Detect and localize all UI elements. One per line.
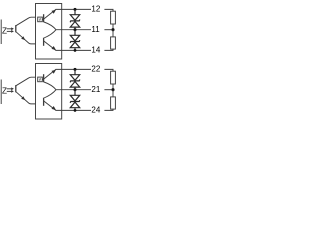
phototransistor Q2 emitter wire with arrow <box>16 92 36 104</box>
node dot R column channel 2 <box>111 88 114 91</box>
LED light arrow 1 channel 2 <box>7 88 12 90</box>
LED light arrow 2 channel 2 <box>7 90 12 92</box>
output element middle arcs to terminal 21 <box>44 82 62 90</box>
node dot R column channel 1 <box>111 28 114 31</box>
output element bar lower channel 1 <box>43 38 45 46</box>
svg-text:Z: Z <box>2 87 7 96</box>
LED light arrow 2 channel 1 <box>7 30 12 32</box>
output element bar upper channel 1 <box>43 14 45 22</box>
suppressor D2 channel 1 (11-14) <box>70 30 80 51</box>
phototransistor Q1 collector wire <box>16 17 36 26</box>
resistor R1 channel 1 <box>111 11 116 24</box>
wire R4 to wire 24 <box>104 109 113 110</box>
input box edge (cropped) channel 1 <box>0 20 2 45</box>
wire 14 channel 1 <box>62 49 91 51</box>
input box edge (cropped) channel 2 <box>0 80 2 105</box>
wire 11 right segment <box>104 29 111 31</box>
phototransistor Q2 collector wire <box>16 77 36 86</box>
node dot TVS middle channel 2 <box>74 88 77 91</box>
wire R3 to node <box>112 84 114 90</box>
driver square mark and link channel 1 <box>39 18 42 20</box>
output element upper diagonal with arrow to terminal 22 <box>44 69 62 79</box>
driver box U1 channel 1 <box>36 4 62 60</box>
svg-text:11: 11 <box>91 25 100 34</box>
wire 22 right segment <box>104 69 113 71</box>
suppressor D3 channel 2 (22-21) <box>70 69 80 89</box>
driver square mark and link channel 2 <box>39 78 42 80</box>
output element middle arcs to terminal 11 <box>44 22 62 30</box>
resistor R3 channel 2 <box>111 71 116 84</box>
wire 21 channel 2 <box>62 89 91 91</box>
node dot TVS bottom channel 1 <box>74 49 77 52</box>
svg-text:12: 12 <box>91 5 100 14</box>
resistor R2 channel 1 <box>111 37 116 49</box>
driver square symbol channel 2 <box>38 77 43 82</box>
node dot TVS top channel 1 <box>74 8 77 11</box>
svg-text:14: 14 <box>91 46 100 55</box>
wire 22 channel 2 <box>62 68 91 70</box>
node dot TVS top channel 2 <box>74 68 77 71</box>
suppressor D1 channel 1 (12-11) <box>70 9 80 29</box>
output element lower diagonal with arrow to terminal 14 <box>44 41 62 50</box>
wire 21 right segment <box>104 89 111 91</box>
phototransistor Q2 base bar <box>15 85 17 92</box>
wire node to R4 <box>112 90 114 97</box>
svg-text:21: 21 <box>91 85 100 94</box>
wire 24 channel 2 <box>62 109 91 111</box>
output element bar upper channel 2 <box>43 74 45 82</box>
svg-text:22: 22 <box>91 65 100 74</box>
phototransistor Q1 emitter wire with arrow <box>16 32 36 44</box>
wire 12 channel 1 <box>62 8 91 10</box>
output element bar lower channel 2 <box>43 98 45 106</box>
wire 11 channel 1 <box>62 29 91 31</box>
resistor R4 channel 2 <box>111 97 116 109</box>
output element lower diagonal with arrow to terminal 24 <box>44 101 62 110</box>
svg-text:24: 24 <box>91 106 100 115</box>
wire R1 to node <box>112 24 114 30</box>
node dot TVS bottom channel 2 <box>74 109 77 112</box>
output element upper diagonal with arrow to terminal 12 <box>44 9 62 19</box>
LED light arrow 1 channel 1 <box>7 28 12 30</box>
suppressor D4 channel 2 (21-24) <box>70 90 80 111</box>
driver box U2 channel 2 <box>36 64 62 120</box>
wire node to R2 <box>112 30 114 37</box>
node dot TVS middle channel 1 <box>74 28 77 31</box>
wire 12 right segment <box>104 9 113 11</box>
driver square symbol channel 1 <box>38 17 43 22</box>
wire R2 to wire 14 <box>104 49 113 50</box>
svg-text:Z: Z <box>2 27 7 36</box>
phototransistor Q1 base bar <box>15 25 17 32</box>
